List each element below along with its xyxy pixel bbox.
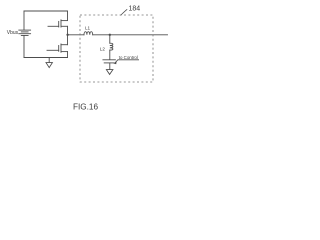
svg-text:Vbus: Vbus	[7, 30, 19, 36]
dashed enclosure N84 (output filter block)	[80, 15, 153, 82]
svg-text:FIG.16: FIG.16	[73, 102, 98, 111]
svg-text:L1: L1	[85, 26, 91, 31]
transistor Q2 (low-side MOSFET)	[47, 35, 68, 58]
wire: tap down to L2	[109, 35, 111, 43]
leader line to label 184	[121, 9, 128, 15]
ground (below capacitor)	[106, 70, 113, 75]
inductor L1	[84, 32, 93, 35]
wire: capacitor to ground stub	[109, 63, 111, 70]
node: switch-node junction dot	[66, 34, 68, 36]
battery Vbus	[19, 30, 31, 35]
wire: switch node to L1	[68, 34, 84, 36]
node: junction dot at filter tap	[109, 34, 111, 36]
capacitor C1	[103, 60, 116, 63]
transistor Q1 (high-side MOSFET)	[48, 11, 68, 35]
wire: left rail upper segment (battery + to top rail)	[23, 11, 25, 30]
svg-text:L2: L2	[100, 46, 106, 51]
inductor L2	[110, 43, 113, 50]
wire: top rail from battery to high-side FET drain	[24, 10, 68, 12]
wire: L2 to capacitor	[109, 50, 111, 59]
ground (left, below bottom rail)	[46, 58, 52, 68]
wire: L1 to output (through dashed box right edge)	[93, 34, 168, 36]
wire: bottom rail	[24, 57, 68, 59]
svg-text:184: 184	[129, 5, 141, 12]
wire: left rail lower segment (battery - to bottom rail)	[23, 36, 25, 58]
label "to Control" with leader arrow	[113, 55, 139, 64]
